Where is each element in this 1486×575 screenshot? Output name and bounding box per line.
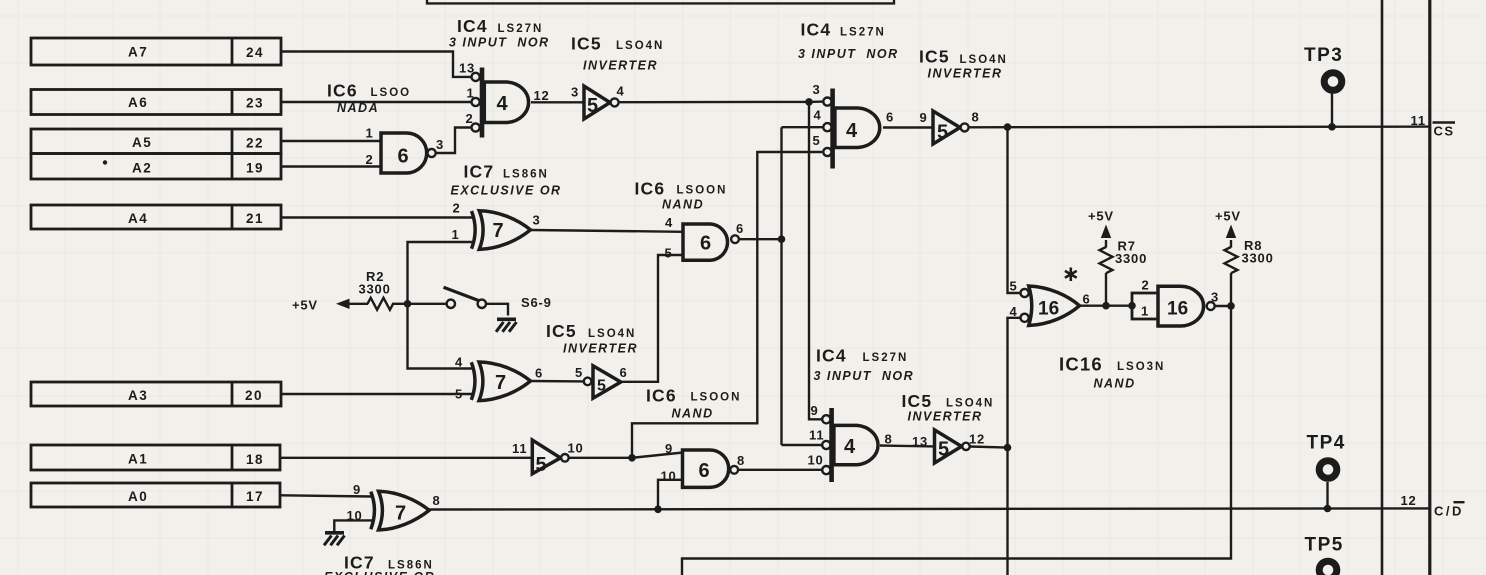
svg-text:NAND: NAND (672, 407, 714, 421)
svg-text:A0: A0 (128, 489, 148, 504)
svg-text:LSO4N: LSO4N (616, 40, 664, 52)
svg-text:S6-9: S6-9 (521, 295, 552, 310)
bus box A1 pin 18 (31, 445, 280, 470)
svg-text:4: 4 (1010, 304, 1018, 319)
svg-text:10: 10 (568, 441, 584, 456)
wire A5 bus to IC6a pin 1 (281, 140, 381, 142)
bus box A6 pin 23 (31, 90, 281, 115)
bus box A2 pin 19 (31, 154, 281, 180)
svg-text:6: 6 (700, 233, 711, 255)
nor gate IC4a (3-input, AND body with input bubbles) pins 13,1,2 out 12 (459, 61, 550, 138)
svg-text:5: 5 (536, 454, 547, 476)
svg-text:3: 3 (533, 213, 541, 228)
svg-text:LSOON: LSOON (691, 392, 742, 404)
svg-text:17: 17 (246, 489, 264, 504)
wire R2 to junction (392, 303, 408, 305)
svg-text:LSO4N: LSO4N (588, 328, 636, 340)
svg-text:IC5: IC5 (571, 34, 602, 54)
nand gate IC6a pins 1,2,3 (366, 126, 445, 174)
wire IC4b output to IC5b input (883, 126, 933, 128)
svg-text:4: 4 (665, 215, 673, 230)
svg-text:13: 13 (912, 434, 928, 449)
svg-text:5: 5 (937, 122, 948, 144)
svg-text:CS: CS (1434, 124, 1455, 139)
wire A4 bus to IC7a pin 2 (281, 216, 472, 218)
svg-text:4: 4 (844, 436, 856, 458)
svg-text:4: 4 (814, 108, 822, 123)
wire TP4 stem (1326, 482, 1328, 509)
inverter IC5d pins 13,12 (912, 430, 985, 463)
svg-text:IC5: IC5 (919, 47, 950, 67)
svg-text:7: 7 (395, 503, 406, 525)
svg-text:A4: A4 (128, 211, 148, 226)
svg-text:13: 13 (459, 61, 475, 76)
wire IC5e output to IC6c pin 9 (569, 453, 684, 458)
svg-text:A3: A3 (128, 388, 148, 403)
svg-text:6: 6 (535, 366, 543, 381)
svg-text:NAND: NAND (1094, 377, 1136, 391)
svg-text:INVERTER: INVERTER (928, 67, 1003, 81)
svg-text:A7: A7 (128, 45, 148, 60)
node R7 junction (1102, 302, 1110, 310)
svg-text:3300: 3300 (1115, 251, 1147, 266)
svg-text:INVERTER: INVERTER (908, 410, 983, 424)
svg-text:4: 4 (497, 93, 509, 115)
svg-text:5: 5 (813, 133, 821, 148)
nor gate IC4b (3-input, AND body with input bubbles) pins 3,4,5 out 6 (813, 82, 895, 169)
ground below IC7c pin 10 (324, 533, 345, 546)
svg-text:2: 2 (366, 152, 374, 167)
svg-text:1: 1 (452, 227, 460, 242)
wire vertical rail 2 (1428, 0, 1431, 575)
svg-text:5: 5 (575, 365, 583, 380)
test point TP4 (1319, 461, 1337, 479)
svg-text:5: 5 (587, 95, 598, 117)
wire CS down to IC16a pin 5 (1008, 127, 1021, 293)
svg-text:LS86N: LS86N (503, 169, 549, 181)
svg-text:TP5: TP5 (1305, 535, 1344, 556)
inverter IC5e pins 11,10 (512, 440, 584, 476)
resistor R8 3300 with +5V arrow (1215, 209, 1274, 306)
wire IC16a pin 4 down to IC5d output junction and bottom edge (1008, 318, 1021, 575)
svg-text:6: 6 (699, 460, 710, 482)
svg-text:IC16: IC16 (1059, 354, 1103, 375)
wire IC16a output to IC16b input (1080, 305, 1133, 307)
svg-text:LS27N: LS27N (840, 27, 886, 39)
svg-text:INVERTER: INVERTER (583, 59, 658, 73)
svg-text:9: 9 (811, 403, 819, 418)
svg-text:10: 10 (347, 508, 363, 523)
wire C/D net: IC7c output to right edge (429, 508, 1430, 509)
svg-text:9: 9 (920, 110, 928, 125)
svg-text:IC4: IC4 (816, 346, 847, 366)
svg-text:IC6: IC6 (635, 179, 666, 199)
node CS junction at x1008 (1004, 123, 1012, 131)
node inverter output junction feeding pin 9 (805, 98, 813, 106)
node R2 junction (404, 300, 412, 308)
svg-text:20: 20 (245, 388, 263, 403)
svg-text:A2: A2 (132, 161, 152, 176)
svg-text:6: 6 (736, 221, 744, 236)
svg-text:4: 4 (617, 84, 625, 99)
svg-text:LS27N: LS27N (498, 23, 544, 35)
wire IC7c pin 10 to ground (334, 520, 372, 531)
svg-text:IC6: IC6 (327, 81, 358, 101)
test point TP3 (1324, 73, 1342, 91)
wire IC7b output to IC5c input bubble (531, 380, 585, 383)
nand gate IC6b pins 4,5 out 6 (665, 215, 745, 261)
svg-text:2: 2 (453, 201, 461, 216)
svg-text:21: 21 (246, 211, 264, 226)
svg-text:11: 11 (809, 428, 824, 443)
svg-text:22: 22 (246, 136, 264, 151)
wire A3 bus to IC7b pin 5 (281, 393, 474, 395)
wire IC16b output to R8 node (1215, 305, 1231, 307)
wire IC6a output to IC4 pin 2 (436, 128, 472, 154)
svg-text:NAND: NAND (662, 198, 704, 212)
svg-text:8: 8 (972, 110, 980, 125)
nand gate IC6c pins 9,10 out 8 (661, 441, 746, 487)
wire IC6c output to IC4c pin 10 (738, 469, 822, 471)
svg-text:1: 1 (467, 86, 475, 101)
bus box A0 pin 17 (31, 483, 280, 507)
svg-text:11: 11 (512, 441, 527, 456)
wire top cut-off box (427, 0, 894, 3)
svg-text:+5V: +5V (1215, 209, 1241, 224)
svg-text:LS27N: LS27N (863, 352, 909, 364)
svg-text:24: 24 (246, 45, 264, 60)
svg-text:4: 4 (846, 120, 858, 142)
svg-text:IC4: IC4 (457, 16, 488, 36)
svg-text:5: 5 (938, 439, 949, 461)
svg-text:LSOON: LSOON (677, 185, 728, 197)
svg-text:IC6: IC6 (646, 386, 677, 406)
svg-text:3: 3 (813, 82, 821, 97)
wire junction up and over to IC4b pin 5 (632, 152, 822, 458)
svg-text:3 INPUT NOR: 3 INPUT NOR (449, 36, 550, 50)
wire IC4a output to IC5a input (531, 101, 584, 103)
svg-text:INVERTER: INVERTER (563, 342, 638, 356)
svg-text:5: 5 (597, 378, 606, 395)
wire CS net: IC5b output to right edge (968, 125, 1430, 128)
ground below switch S6-9 (496, 319, 517, 332)
svg-text:7: 7 (493, 220, 504, 242)
svg-text:9: 9 (665, 441, 673, 456)
svg-text:10: 10 (661, 469, 677, 484)
svg-text:+5V: +5V (292, 298, 318, 313)
wire switch to ground (486, 304, 508, 316)
node A0 net junction (654, 506, 662, 514)
nand gate IC16a (OR body with input bubbles) pins 5,4 out 6 (1010, 279, 1091, 326)
bus box A5 pin 22 (31, 129, 281, 179)
bus box A4 pin 21 (31, 205, 281, 229)
svg-text:8: 8 (885, 432, 893, 447)
node IC16b input junction (1128, 302, 1136, 310)
svg-text:2: 2 (1142, 278, 1150, 293)
svg-text:6: 6 (620, 365, 628, 380)
svg-text:IC4: IC4 (801, 20, 832, 40)
wire A1 bus to IC5e input (281, 457, 532, 459)
wire IC5a output to IC4b pin 3 (619, 100, 824, 103)
wire A7 bus to IC4 pin 13 (281, 52, 471, 77)
svg-text:EXCLUSIVE OR: EXCLUSIVE OR (324, 570, 435, 575)
svg-text:19: 19 (246, 161, 264, 176)
switch S6-9 (444, 287, 552, 310)
svg-text:3300: 3300 (359, 282, 391, 297)
svg-text:6: 6 (886, 110, 894, 125)
svg-text:LSO4N: LSO4N (960, 54, 1008, 66)
svg-text:LSOO: LSOO (371, 87, 412, 99)
wire junction to switch S6-9 (408, 303, 447, 305)
node IC6b output junction (778, 235, 786, 243)
svg-text:+5V: +5V (1088, 209, 1114, 224)
wire IC5d output to junction (970, 447, 1008, 448)
svg-text:12: 12 (969, 432, 985, 447)
test point TP5 (1319, 561, 1337, 575)
svg-text:16: 16 (1167, 299, 1188, 320)
svg-text:7: 7 (495, 372, 506, 394)
svg-text:A5: A5 (132, 135, 152, 150)
svg-text:IC7: IC7 (464, 162, 495, 182)
xor gate IC7a pins 2,1 out 3 (452, 201, 541, 250)
svg-text:5: 5 (665, 246, 673, 261)
inverter IC5a pins 3,4 (571, 84, 625, 120)
svg-text:11: 11 (1411, 113, 1426, 128)
nand gate IC16b pins 2,1 out 3 with tied-input box (1132, 278, 1219, 327)
svg-text:LSO4N: LSO4N (946, 398, 994, 410)
node R8 junction (1227, 302, 1235, 310)
node IC5d output junction (1004, 444, 1012, 452)
svg-text:6: 6 (398, 146, 409, 168)
svg-text:1: 1 (1141, 304, 1149, 319)
svg-text:A6: A6 (128, 95, 148, 110)
wire TP3 stem (1331, 93, 1333, 127)
svg-text:12: 12 (534, 88, 550, 103)
wire IC6b output junction vertical to IC4b pin 4 and IC4c pin 11 (739, 127, 823, 445)
resistor R2 3300 with +5V arrow (292, 269, 393, 313)
wire IC5c output up to IC6b pin 5 (620, 255, 684, 382)
svg-text:C/D: C/D (1434, 504, 1464, 519)
bus box A7 pin 24 (31, 38, 281, 65)
node IC5e output junction (628, 454, 636, 462)
svg-text:IC5: IC5 (902, 391, 933, 411)
wire vertical rail 1 (1381, 0, 1384, 575)
resistor R7 3300 with +5V arrow (1088, 209, 1147, 306)
svg-text:3 INPUT NOR: 3 INPUT NOR (814, 369, 915, 383)
svg-text:TP4: TP4 (1307, 433, 1346, 454)
svg-text:TP3: TP3 (1304, 45, 1343, 66)
svg-text:LSO3N: LSO3N (1117, 361, 1165, 373)
wire IC7a output to IC6b pin 4 (531, 230, 684, 232)
nor gate IC4c (3-input, AND body with input bubbles) pins 9,11,10 out 8 (808, 403, 893, 482)
wire IC16b output down and left to bottom edge (682, 306, 1231, 575)
svg-text:6: 6 (1083, 292, 1091, 307)
svg-text:3: 3 (1211, 290, 1219, 305)
svg-text:EXCLUSIVE OR: EXCLUSIVE OR (451, 184, 562, 198)
svg-text:3 INPUT NOR: 3 INPUT NOR (798, 47, 899, 61)
svg-text:A1: A1 (128, 452, 148, 467)
wire A6 bus to IC4 pin 1 (281, 101, 471, 103)
svg-text:5: 5 (1010, 279, 1018, 294)
svg-text:12: 12 (1401, 493, 1417, 508)
inverter IC5c pins 5,6 (input bubble) (575, 365, 628, 398)
node TP4 junction (1324, 505, 1332, 513)
svg-text:3300: 3300 (1242, 251, 1274, 266)
svg-text:8: 8 (433, 493, 441, 508)
wire A0 bus to IC7c pin 9 (281, 495, 372, 496)
svg-text:5: 5 (455, 387, 463, 402)
svg-text:8: 8 (737, 453, 745, 468)
bus box A3 pin 20 (31, 382, 281, 406)
svg-text:9: 9 (353, 482, 361, 497)
svg-text:4: 4 (455, 355, 463, 370)
svg-text:1: 1 (366, 126, 374, 141)
xor gate IC7c pins 9,10 out 8 (347, 482, 441, 530)
wire junction down to IC4c pin 9 (809, 102, 822, 419)
xor gate IC7b pins 4,5 out 6 (455, 355, 543, 402)
inverter IC5b pins 9,8 (920, 110, 980, 145)
svg-text:10: 10 (808, 453, 824, 468)
svg-text:3: 3 (571, 85, 579, 100)
svg-text:3: 3 (436, 137, 444, 152)
svg-text:23: 23 (246, 96, 264, 111)
wire IC6c pin 10 from A0 net (658, 480, 683, 510)
svg-text:18: 18 (246, 452, 264, 467)
svg-text:IC5: IC5 (546, 321, 577, 341)
svg-text:16: 16 (1038, 299, 1059, 320)
wire IC7a pin 1 to node R2 to IC7b pin 4 (408, 242, 474, 369)
label asterisk (1065, 268, 1077, 282)
wire A2 bus to IC6a pin 2 (281, 165, 381, 167)
svg-text:NADA: NADA (337, 101, 379, 115)
wire IC4c output to IC5d input (880, 444, 935, 447)
svg-text:2: 2 (466, 111, 474, 126)
node TP3 junction (1328, 123, 1336, 131)
